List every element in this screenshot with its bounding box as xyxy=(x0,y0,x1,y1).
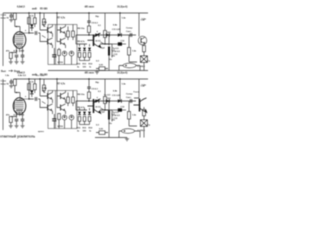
ground cathode 2 xyxy=(14,61,18,64)
svg-text:хтактный усилитель: хтактный усилитель xyxy=(0,135,35,139)
electrolytic C11 oval xyxy=(123,63,136,68)
transistor VT4 xyxy=(61,38,66,45)
capacitor C8 xyxy=(87,21,90,22)
node rail junction d xyxy=(119,78,120,79)
svg-text:Слев: Слев xyxy=(1,81,7,83)
wire mid left drop xyxy=(75,35,77,44)
node mid junction xyxy=(88,100,89,101)
transistor VT25 power driver xyxy=(88,99,101,113)
capacitor C5 dark xyxy=(52,55,56,57)
tube V2 grid 1 xyxy=(15,101,23,103)
diode D6 chain xyxy=(89,44,91,61)
resistor R26 xyxy=(67,97,70,103)
wire anode drop xyxy=(28,13,30,33)
tube V grid 2 xyxy=(15,37,23,39)
resistor R27 xyxy=(72,97,75,103)
capacitor C21 input xyxy=(10,81,13,83)
module box outline xyxy=(48,25,77,65)
svg-text:Гр: Гр xyxy=(148,124,150,126)
svg-text:Гость: Гость xyxy=(134,92,140,94)
resistor R23 anode load xyxy=(28,84,31,91)
resistor R6 xyxy=(67,31,70,37)
electrolytic C27 xyxy=(69,115,74,120)
electrolytic C6 xyxy=(62,51,67,56)
wire anode to coupling xyxy=(29,32,40,34)
svg-text:Rф: Rф xyxy=(96,15,100,18)
wire driver emitter link xyxy=(101,42,110,44)
electrolytic C9 bar xyxy=(108,35,110,46)
svg-text:6,8н: 6,8н xyxy=(42,88,47,90)
resistor R7 xyxy=(72,31,75,37)
svg-text:Тр 0,5: Тр 0,5 xyxy=(113,112,120,114)
resistor R8 in box xyxy=(58,50,61,56)
ground bottom xyxy=(95,71,99,74)
wire bottom return xyxy=(48,70,148,72)
wire output emitter xyxy=(143,107,145,110)
capacitor C10 out coupling xyxy=(130,33,132,37)
svg-text:-9В экон: -9В экон xyxy=(84,72,94,75)
tube V pins xyxy=(17,48,23,52)
wire speaker leads xyxy=(129,116,144,138)
node rail junction e xyxy=(28,78,29,79)
svg-text:Смет: Смет xyxy=(126,31,131,33)
wire splitter emitter marks xyxy=(42,25,46,38)
svg-text:R7 4,7к: R7 4,7к xyxy=(57,17,66,20)
wire mid drop x112 xyxy=(111,44,113,58)
diode D22 xyxy=(95,99,99,103)
svg-text:Смет: Смет xyxy=(126,97,131,99)
node rail junction a xyxy=(39,12,40,13)
transistor VT22 xyxy=(48,104,53,111)
node grid junction xyxy=(16,26,17,27)
wire splitter input xyxy=(40,79,48,108)
svg-text:R9 4,7к: R9 4,7к xyxy=(78,106,86,109)
electrolytic C29 bar xyxy=(108,101,110,112)
capacitor C2 cathode bypass xyxy=(15,55,19,57)
capacitor C213 dark blob xyxy=(118,108,122,111)
resistor R3 anode load xyxy=(28,18,31,25)
node anode xyxy=(28,32,29,33)
wire from tube anode up xyxy=(20,33,30,35)
svg-text:R9 4,7к: R9 4,7к xyxy=(78,40,86,43)
ground cathode 3 xyxy=(20,125,24,128)
svg-text:Rл 1,0м: Rл 1,0м xyxy=(36,75,45,77)
capacitor C1 input xyxy=(10,15,13,17)
tube V2 cathode xyxy=(16,109,23,111)
wire mid left drop xyxy=(75,101,77,110)
diode D26 chain xyxy=(89,108,91,125)
diode D1 blob xyxy=(30,24,34,28)
node rail junction e xyxy=(28,12,29,13)
transistor VT24 xyxy=(61,104,66,111)
vacuum tube V pentode envelope xyxy=(13,32,26,49)
resistor R24 xyxy=(33,84,36,90)
svg-text:мкФ: мкФ xyxy=(32,8,37,11)
svg-text:С14 0,5: С14 0,5 xyxy=(113,50,121,53)
transistor VT3 xyxy=(61,26,66,33)
capacitor C210 out coupling xyxy=(130,99,132,103)
wire output emitter xyxy=(143,44,145,47)
tube V grid 4 xyxy=(15,41,23,43)
svg-text:10,2(а+б): 10,2(а+б) xyxy=(117,6,128,9)
wire cathode bus xyxy=(11,116,17,118)
diode D4 chain xyxy=(79,44,81,61)
tube V2 grid 4 xyxy=(15,107,23,109)
wire splitter input xyxy=(40,13,48,42)
resistor R9 xyxy=(88,26,91,33)
wire cluster2 bias xyxy=(57,79,61,108)
transistor VT5 power driver xyxy=(88,33,101,47)
node rail junction a xyxy=(39,78,40,79)
diode D24 chain xyxy=(79,108,81,125)
diode D23 xyxy=(106,99,110,103)
ground cathode 1 xyxy=(9,125,13,128)
resistor R1 grid xyxy=(13,13,16,19)
svg-text:МП39: МП39 xyxy=(58,126,64,128)
resistor R4 xyxy=(33,18,36,24)
diode D27 xyxy=(118,99,122,103)
transistor VT1 xyxy=(48,26,53,33)
svg-text:вчер 10: вчер 10 xyxy=(1,84,10,86)
resistor R215 emitter xyxy=(143,110,146,116)
transistor VT23 xyxy=(61,92,66,99)
tube V heater hatch xyxy=(14,44,22,47)
svg-text:R8 10к: R8 10к xyxy=(78,28,86,30)
wire collector links xyxy=(53,25,66,49)
diode D2 xyxy=(95,33,99,37)
wire left vertical bus xyxy=(2,13,4,66)
resistor R14 xyxy=(128,35,130,40)
speaker terminal block xyxy=(140,56,147,63)
node anode xyxy=(28,98,29,99)
resistor R5 xyxy=(43,19,46,25)
input arrow xyxy=(9,70,13,72)
electrolytic C211 oval xyxy=(122,129,135,134)
svg-text:6,8к 0,5: 6,8к 0,5 xyxy=(18,75,27,77)
tube V grid 3 xyxy=(15,39,23,41)
node second line junction xyxy=(104,43,105,44)
transistor VT6 output xyxy=(138,13,140,37)
wire chain bottom bus xyxy=(80,60,90,62)
svg-text:А 0,5: А 0,5 xyxy=(96,106,102,109)
wire top supply rail channel 2 xyxy=(14,78,148,80)
svg-text:Гр: Гр xyxy=(148,60,150,62)
wire right feed drop xyxy=(119,79,121,101)
capacitor C3 screen bypass xyxy=(21,55,25,57)
speaker terminal block xyxy=(140,120,147,127)
ground input network xyxy=(9,85,13,88)
tube V cathode xyxy=(16,43,23,45)
svg-text:А 0,5: А 0,5 xyxy=(96,40,102,43)
resistor R28 in box xyxy=(58,114,61,120)
module box divider xyxy=(55,91,57,129)
svg-text:1,0м: 1,0м xyxy=(142,85,147,87)
electrolytic C26 xyxy=(62,115,67,120)
capacitor C25 dark xyxy=(52,119,56,121)
wire driver emitter link xyxy=(101,108,110,110)
ground cathode 1 xyxy=(9,61,13,64)
svg-text:-9В экон: -9В экон xyxy=(84,6,94,9)
wire top supply rail channel 1 xyxy=(3,12,148,14)
ground input network xyxy=(9,19,13,22)
capacitor C22 cathode bypass xyxy=(15,119,19,121)
wire mid drop x112 xyxy=(111,110,113,122)
node mid junction xyxy=(88,34,89,35)
svg-text:С11 0,05: С11 0,05 xyxy=(112,95,121,97)
ground cathode 3 xyxy=(20,61,24,64)
tube V2 grid 2 xyxy=(15,103,23,105)
svg-text:МП39: МП39 xyxy=(58,62,64,64)
node rail junction d xyxy=(119,12,120,13)
resistor R213 xyxy=(104,79,106,97)
wire oval leads xyxy=(119,131,140,138)
node grid junction xyxy=(16,92,17,93)
tube V2 grid 3 xyxy=(15,105,23,107)
svg-text:Сопер: Сопер xyxy=(126,94,133,96)
svg-text:Вход: Вход xyxy=(14,71,20,73)
capacitor C23 screen bypass xyxy=(21,119,25,121)
wire speaker leads xyxy=(129,52,144,71)
wire second line right extension xyxy=(112,43,126,45)
wire second line xyxy=(76,43,112,45)
wire chain bottom bus xyxy=(80,124,90,126)
svg-text:6,8к0,5: 6,8к0,5 xyxy=(17,6,26,9)
resistor R13 xyxy=(104,13,106,31)
wire grid lead xyxy=(19,27,21,33)
module box outline xyxy=(48,91,77,129)
svg-text:1,0м: 1,0м xyxy=(142,19,147,21)
transistor VT21 xyxy=(48,92,53,99)
wire oval leads xyxy=(119,66,140,71)
svg-text:С11 0,05: С11 0,05 xyxy=(112,29,121,31)
resistor R214 xyxy=(128,101,130,106)
svg-text:Сл 0,5: Сл 0,5 xyxy=(104,95,111,97)
svg-text:Сопер: Сопер xyxy=(126,28,133,30)
resistor R15 emitter xyxy=(143,46,146,52)
svg-text:С14 0,5: С14 0,5 xyxy=(113,114,121,117)
svg-text:С 500,0: С 500,0 xyxy=(138,130,146,132)
wire mid signal line xyxy=(76,100,136,102)
diode D7 xyxy=(118,33,122,37)
svg-text:Вых: Вых xyxy=(1,71,7,73)
tube V2 anode xyxy=(16,99,23,101)
tube V anode xyxy=(16,33,23,35)
svg-text:Слев: Слев xyxy=(1,15,7,17)
node rail junction c xyxy=(88,12,89,13)
wire cluster2 bias xyxy=(57,13,61,42)
tube V grid 1 xyxy=(15,35,23,37)
module box divider xyxy=(55,25,57,65)
capacitor C28 xyxy=(87,87,90,88)
wire collector links xyxy=(53,91,66,115)
node rail junction c xyxy=(88,78,89,79)
diode D25 chain xyxy=(84,108,86,125)
svg-text:вчер 10: вчер 10 xyxy=(1,18,10,20)
resistor R25 xyxy=(43,85,46,91)
diode D21 blob xyxy=(30,90,34,94)
svg-text:Тр 0,5: Тр 0,5 xyxy=(113,48,120,50)
vacuum tube V2 pentode envelope xyxy=(13,98,26,115)
node mid junction 2 xyxy=(108,100,109,101)
svg-text:крыш: крыш xyxy=(38,131,44,133)
component small r xyxy=(99,67,105,71)
svg-text:R5 680: R5 680 xyxy=(40,9,48,11)
wire from tube anode up xyxy=(20,99,30,101)
wire bottom return xyxy=(95,137,127,139)
ground bottom xyxy=(125,138,129,141)
wire mid signal line xyxy=(76,34,136,36)
svg-text:Rф: Rф xyxy=(96,81,100,84)
tube V side electrode xyxy=(13,36,15,44)
resistor R2 cathode xyxy=(9,53,12,59)
wire second line xyxy=(76,109,112,111)
ground cathode 2 xyxy=(14,125,18,128)
resistor R22 cathode xyxy=(9,117,12,123)
tube V2 pins xyxy=(17,112,23,116)
tube V2 heater hatch xyxy=(14,110,22,113)
capacitor C24 coupling xyxy=(35,97,37,101)
wire grid lead xyxy=(19,93,21,99)
capacitor C4 coupling xyxy=(35,31,37,35)
component small r xyxy=(99,131,105,135)
diode D3 xyxy=(106,33,110,37)
wire splitter emitter marks xyxy=(42,91,46,104)
node second line junction xyxy=(104,109,105,110)
wire right feed drop xyxy=(119,13,121,35)
transistor VT2 xyxy=(48,38,53,45)
wire anode to coupling xyxy=(29,98,40,100)
svg-text:R7 4,7к: R7 4,7к xyxy=(57,83,66,86)
transistor VT26 output (large) xyxy=(134,79,139,98)
wire second line right extension xyxy=(112,109,126,111)
wire anode drop xyxy=(28,79,30,99)
resistor R21 grid xyxy=(13,79,16,85)
svg-text:С 500,0: С 500,0 xyxy=(138,66,146,68)
electrolytic C7 xyxy=(69,51,74,56)
diode D5 chain xyxy=(84,44,86,61)
node rail junction b xyxy=(56,12,57,13)
svg-text:6,8н: 6,8н xyxy=(42,22,47,24)
node rail junction b xyxy=(56,78,57,79)
wire left vertical bus xyxy=(2,79,4,130)
tube V2 side electrode xyxy=(13,102,15,110)
svg-text:R8 10к: R8 10к xyxy=(78,94,86,96)
resistor R29 xyxy=(88,92,91,99)
svg-text:10,2(а+б): 10,2(а+б) xyxy=(117,72,128,75)
node mid junction 2 xyxy=(108,34,109,35)
capacitor C13 dark blob xyxy=(118,42,122,45)
wire cathode bus xyxy=(11,50,17,54)
